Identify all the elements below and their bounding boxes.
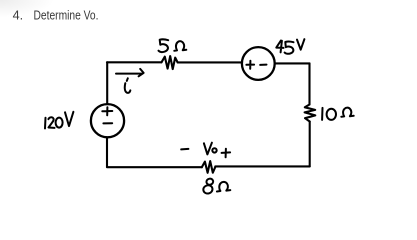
wire right upper [308,63,310,104]
label 45V: digit 4 [276,41,283,53]
minus sign in 120V source [103,122,112,124]
label Vo: subscript o [212,148,216,152]
wire left lower [106,137,108,167]
resistor R3 8ohm zigzag [202,161,216,173]
current arrow [116,69,144,76]
voltage source V1 120V circle [91,104,124,137]
label i [125,78,131,93]
voltage source V2 45V circle [242,47,275,80]
label 8ohm: digit 8 [206,178,214,185]
label Vo: plus sign [222,149,231,158]
wire right lower [309,122,311,167]
svg-text:4.: 4. [13,9,24,23]
label 10ohm: digit 0 [327,109,336,120]
label 5ohm: omega [174,41,186,51]
resistor R1 5ohm zigzag [162,56,178,69]
svg-text:Determine Vo.: Determine Vo. [34,9,99,23]
label 120V: digit 2 [48,117,54,128]
plus sign in 45V source [246,61,254,69]
wire top middle [178,61,242,63]
label 120V: digit 0 [56,118,63,128]
plus sign in 120V source [102,107,112,115]
wire top-left horizontal [107,61,162,63]
label 120V: letter V [65,112,73,126]
label 10ohm: omega [341,108,353,117]
label 10ohm: digit 1 [321,108,323,120]
minus sign in 45V source [260,64,266,66]
wire bottom left [107,166,202,168]
wire left upper [106,62,108,104]
wire bottom right [215,165,309,167]
label 5ohm: digit 5 [159,39,169,52]
wire top right [275,62,310,64]
resistor R2 10ohm zigzag [305,105,316,122]
label 8ohm: omega [217,182,230,192]
label Vo: letter V [204,143,212,155]
label 120V: digit 1 [44,118,47,129]
label 45V: digit 5 [285,42,294,54]
label Vo: minus sign [181,148,188,151]
label 45V: letter V [297,39,304,50]
